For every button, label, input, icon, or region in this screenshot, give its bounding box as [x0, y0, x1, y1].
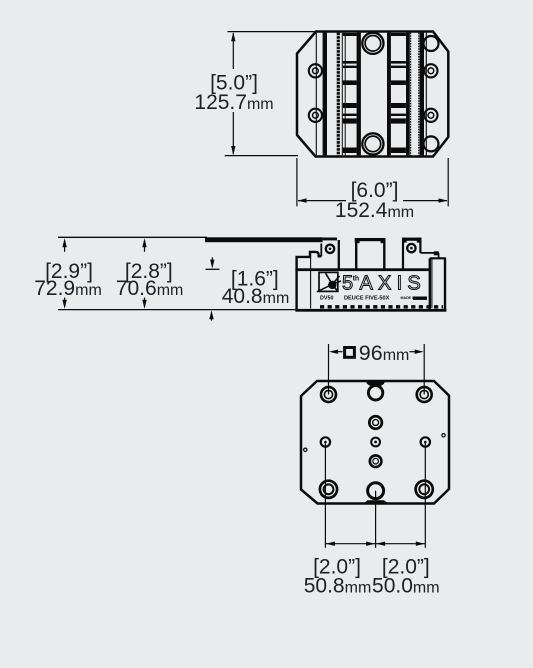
top view: vise seen from above: [297, 32, 448, 157]
top view left jaw rail bar: [323, 33, 327, 156]
bottom view hole bottom-right: [416, 481, 433, 498]
bottom view bottom center tab: [364, 500, 388, 503]
top view right jaw step rungs: [391, 33, 406, 36]
side view right ledge: [420, 252, 438, 254]
top view right corner hole upper: [424, 36, 439, 51]
bottom view hole bottom-left: [320, 481, 337, 498]
dimension 6.0in / 152.4mm width of top view: [297, 158, 448, 222]
square symbol: [345, 348, 355, 358]
bottom view pin hole right: [442, 434, 445, 437]
svg-text:DEUCE FIVE-50X: DEUCE FIVE-50X: [344, 295, 390, 301]
top view left clamp hole lower: [309, 109, 322, 122]
svg-text:40.8mm: 40.8mm: [222, 285, 290, 308]
side view dovetail serrations: [320, 305, 443, 308]
dimensions 2.0in 50.8mm and 2.0in 50.0mm: [304, 442, 440, 598]
svg-text:70.6mm: 70.6mm: [116, 277, 184, 300]
dimension 1.6in / 40.8mm: [206, 257, 290, 320]
top view right corner hole lower: [424, 136, 439, 151]
dimension 2.9in / 72.9mm: [34, 238, 102, 309]
bottom view hole top-left: [321, 387, 336, 402]
5th Axis logo box: [317, 272, 341, 291]
svg-text:DV50: DV50: [320, 295, 334, 301]
made in usa text: [401, 296, 428, 300]
top view right jaw master bar: [387, 33, 391, 156]
top view octagonal body outline: [297, 32, 448, 157]
side view bottom extension line: [58, 309, 297, 311]
logo center blob: [328, 281, 336, 289]
dimension 2.8in / 70.6mm: [116, 238, 184, 309]
bottom view hole mid-right: [421, 437, 430, 446]
bottom view center small hole: [371, 438, 380, 447]
side view body vertical divider: [310, 258, 312, 309]
bottom view octagonal outline: [301, 381, 449, 504]
top view left serrated grip edge: [337, 33, 340, 156]
side view center boss: [355, 240, 357, 269]
bottom view of vise: [301, 381, 449, 504]
side view of vise: [58, 237, 446, 311]
side view right jaw block: [402, 240, 404, 270]
side view body top surface line: [295, 268, 429, 271]
dimension 5.0in / 125.7mm height of top view: [194, 32, 316, 156]
side view bottom edge: [295, 309, 446, 312]
dimension square 96mm: [329, 341, 425, 395]
top view right serrated grip edges: [410, 33, 412, 156]
bottom view hole top-right: [417, 387, 432, 402]
top view center bottom bore: [362, 133, 383, 154]
side view left jaw screw: [326, 245, 334, 253]
top view right jaw clamp bar: [420, 33, 424, 156]
bottom view hole top-center: [368, 386, 382, 400]
top view left jaw step rungs: [343, 33, 357, 36]
top view left screw centerline: [315, 33, 317, 156]
top view left jaw inner edge lines: [341, 33, 343, 156]
top view left jaw master bar: [357, 33, 361, 156]
svg-text:5: 5: [342, 272, 353, 294]
top view center top bore: [362, 33, 383, 54]
svg-text:152.4mm: 152.4mm: [335, 199, 414, 222]
svg-text:th: th: [353, 275, 360, 282]
top view right clamp hole upper: [424, 64, 437, 77]
top view right screw centerline: [425, 33, 427, 156]
side view pallet rail top extension line: [58, 236, 207, 238]
bottom view hole bottom-center: [368, 483, 384, 499]
bottom view pin hole left: [304, 448, 307, 451]
svg-text:125.7mm: 125.7mm: [194, 91, 273, 114]
side view right jaw screw: [407, 244, 415, 252]
side view main body outline left: [297, 252, 322, 311]
top view left clamp hole upper: [309, 64, 322, 77]
side view right column: [430, 257, 446, 259]
top view right clamp hole lower: [424, 109, 437, 122]
top view right jaw rail bar: [406, 33, 410, 156]
bottom view center hole 2: [370, 455, 382, 467]
svg-text:50.8mm: 50.8mm: [304, 575, 372, 598]
5th AXIS wordmark: [342, 272, 426, 294]
svg-text:AXIS: AXIS: [360, 272, 426, 294]
side view pallet rail bar: [205, 237, 323, 242]
bottom view hole mid-left: [321, 437, 330, 446]
bottom view top center tab: [366, 382, 384, 387]
svg-text:96mm: 96mm: [359, 341, 410, 365]
bottom view center hole 1: [369, 416, 382, 429]
side view left jaw block: [320, 244, 322, 257]
logo star rays: [317, 273, 341, 292]
